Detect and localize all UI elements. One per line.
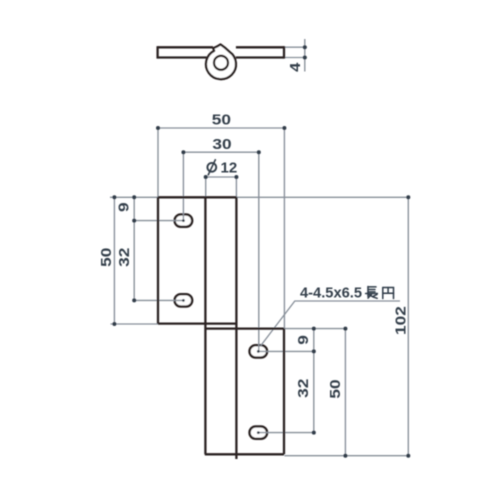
svg-text:32: 32 bbox=[116, 248, 133, 267]
svg-text:50: 50 bbox=[212, 111, 231, 128]
svg-text:30: 30 bbox=[212, 136, 231, 153]
svg-text:4-4.5x6.5: 4-4.5x6.5 bbox=[300, 285, 362, 302]
svg-text:9: 9 bbox=[116, 202, 133, 212]
svg-text:32: 32 bbox=[295, 379, 312, 398]
svg-text:50: 50 bbox=[98, 248, 115, 267]
svg-text:4: 4 bbox=[288, 62, 304, 71]
svg-text:102: 102 bbox=[393, 306, 410, 335]
svg-text:9: 9 bbox=[295, 335, 312, 345]
svg-text:12: 12 bbox=[221, 159, 238, 176]
svg-text:50: 50 bbox=[327, 379, 344, 398]
